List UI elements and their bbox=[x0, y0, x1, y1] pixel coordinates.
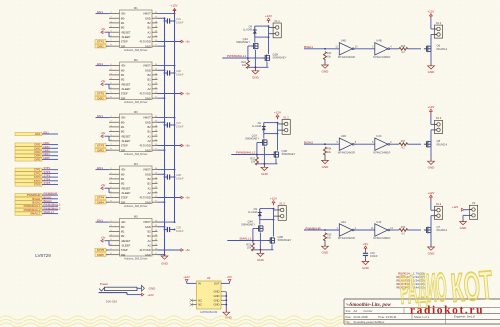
svg-text:Arduino_SM_Driver: Arduino_SM_Driver bbox=[124, 204, 148, 208]
ground (BIGH1 pulldown) bbox=[322, 59, 330, 73]
port STP5 (module M5) bbox=[95, 248, 109, 252]
svg-text:STP1: STP1 bbox=[44, 166, 51, 170]
svg-text:X2.2: X2.2 bbox=[436, 202, 442, 206]
ground (Q7 source) bbox=[428, 233, 436, 256]
power +12V (power jack) bbox=[127, 293, 154, 297]
port PWM8KHR bbox=[15, 192, 58, 198]
note IRLR part list bbox=[396, 272, 425, 290]
port STP3 bbox=[15, 174, 58, 180]
svg-text:M5: M5 bbox=[134, 214, 138, 218]
svg-text:+12V: +12V bbox=[147, 293, 154, 297]
svg-text:Number:: Number: bbox=[364, 310, 374, 313]
title block bbox=[344, 299, 500, 324]
svg-text:STEP: STEP bbox=[121, 196, 128, 200]
svg-text:Time: 14:36:31: Time: 14:36:31 bbox=[378, 315, 397, 319]
connector X1.2 bbox=[278, 115, 291, 134]
svg-text:VMOT: VMOT bbox=[143, 168, 151, 172]
svg-text:LV8729: LV8729 bbox=[35, 253, 51, 258]
capacitor C28 100nF bbox=[164, 173, 184, 180]
net label EN1 (module M4) bbox=[96, 166, 110, 170]
svg-text:PWMSMALL2: PWMSMALL2 bbox=[44, 206, 61, 210]
svg-text:GND: GND bbox=[145, 225, 151, 229]
svg-text:B1: B1 bbox=[148, 234, 152, 238]
svg-text:+5v: +5v bbox=[185, 196, 190, 200]
svg-text:+12V: +12V bbox=[274, 111, 281, 115]
connector X2.4 bbox=[431, 18, 443, 46]
power +12V (X1.3 block) bbox=[270, 197, 277, 206]
svg-text:X1.1: X1.1 bbox=[274, 19, 280, 23]
svg-text:Arduino_SM_Driver: Arduino_SM_Driver bbox=[124, 257, 148, 261]
svg-text:LL4148: LL4148 bbox=[252, 124, 261, 128]
svg-text:STP5: STP5 bbox=[44, 181, 51, 185]
port DIR5 bbox=[15, 156, 58, 162]
svg-text:DIR: DIR bbox=[121, 200, 126, 204]
svg-text:10k: 10k bbox=[242, 63, 247, 67]
resistor R24 10k (pulldown) bbox=[324, 147, 333, 155]
port DIR2 (module M2) bbox=[95, 96, 109, 100]
resistor R22 10k bbox=[250, 156, 258, 165]
net label PWMSMALL2 bbox=[231, 143, 271, 158]
power +5v (module M3) bbox=[101, 131, 109, 141]
wire GND pins M3 to GND rail bbox=[158, 121, 166, 151]
svg-text:+5V: +5V bbox=[227, 275, 232, 279]
power +12V (X1.2 block) bbox=[274, 111, 281, 120]
port EN1 bbox=[15, 131, 58, 137]
svg-text:-FLT/VDD: -FLT/VDD bbox=[139, 196, 151, 200]
transistor Q6 IRLR014 bbox=[424, 44, 448, 53]
svg-text:DIR4: DIR4 bbox=[34, 154, 41, 158]
wire bbox=[354, 229, 375, 231]
svg-text:Smoothie-power.SchDoc: Smoothie-power.SchDoc bbox=[354, 320, 385, 324]
svg-text:-FLT/VDD: -FLT/VDD bbox=[139, 144, 151, 148]
svg-text:+5v: +5v bbox=[101, 27, 106, 31]
resistor R30 4.7 (gate) bbox=[390, 226, 421, 235]
port STP1 (module M1) bbox=[95, 40, 109, 44]
power +12V (Q8 drain) bbox=[427, 105, 434, 114]
svg-text:GND: GND bbox=[322, 165, 330, 169]
capacitor C29 100nF bbox=[164, 226, 184, 233]
svg-text:M74HC04M1R: M74HC04M1R bbox=[338, 236, 355, 240]
port STP5 bbox=[15, 181, 58, 187]
power +12V (connector X3) bbox=[452, 205, 470, 211]
svg-text:+5v: +5v bbox=[101, 79, 106, 83]
svg-text:SI9945AEY: SI9945AEY bbox=[245, 136, 259, 140]
svg-text:-RESET: -RESET bbox=[121, 30, 131, 34]
svg-text:GND: GND bbox=[252, 76, 260, 80]
svg-text:Q8: Q8 bbox=[437, 139, 441, 143]
port DIR3 (module M3) bbox=[95, 148, 109, 152]
svg-text:B2: B2 bbox=[148, 21, 152, 25]
port STP1 bbox=[15, 166, 58, 172]
svg-text:100nF: 100nF bbox=[176, 20, 184, 24]
resistor R13 10k (pulldown) bbox=[324, 52, 333, 60]
module M1 Arduino_SM_Driver bbox=[109, 6, 158, 52]
svg-text:A1: A1 bbox=[148, 82, 152, 86]
port STP2 (module M2) bbox=[95, 92, 109, 96]
wire VMOT M2 to +12V rail bbox=[158, 65, 176, 67]
wire GND pins M2 to GND rail bbox=[158, 69, 166, 99]
svg-text:GND: GND bbox=[145, 148, 151, 152]
svg-text:M4: M4 bbox=[134, 162, 138, 166]
module M5 Arduino_SM_Driver bbox=[109, 214, 158, 260]
transistor Q2A SI9945AEY bbox=[236, 37, 258, 50]
text LV8729 bbox=[35, 253, 51, 258]
transistor Q7 IRLR014 bbox=[424, 225, 448, 234]
transistor Q4A SI9945AEY bbox=[241, 219, 263, 232]
svg-text:DIR3: DIR3 bbox=[44, 149, 51, 153]
svg-text:Arduino_SM_Driver: Arduino_SM_Driver bbox=[124, 152, 148, 156]
svg-text:BIGH1: BIGH1 bbox=[32, 197, 41, 201]
svg-text:PWMSMALL2: PWMSMALL2 bbox=[236, 151, 256, 155]
ground (X1.3 block) bbox=[253, 233, 274, 263]
capacitor C10 100nF bbox=[363, 251, 378, 259]
svg-text:LM78L05ACM: LM78L05ACM bbox=[200, 310, 218, 314]
svg-text:M2: M2 bbox=[121, 78, 125, 82]
svg-text:STP2: STP2 bbox=[44, 170, 51, 174]
svg-text:GND: GND bbox=[460, 226, 468, 230]
svg-text:B2: B2 bbox=[148, 73, 152, 77]
svg-text:-EN: -EN bbox=[121, 168, 126, 172]
port BIGH2 bbox=[15, 199, 58, 205]
svg-text:DIR5: DIR5 bbox=[34, 157, 41, 161]
svg-text:U4E: U4E bbox=[341, 39, 346, 43]
port STP3 (module M3) bbox=[95, 144, 109, 148]
wire bbox=[354, 143, 375, 145]
svg-text:SI9945AEY: SI9945AEY bbox=[282, 152, 296, 156]
svg-text:Arduino_SM_Driver: Arduino_SM_Driver bbox=[124, 100, 148, 104]
svg-text:M1: M1 bbox=[121, 230, 125, 234]
module M4 Arduino_SM_Driver bbox=[109, 162, 158, 208]
connector X1.3 bbox=[274, 201, 287, 220]
power +5v at -FLT/VDD M2 bbox=[158, 92, 191, 96]
svg-text:DIR: DIR bbox=[121, 96, 126, 100]
svg-text:GND: GND bbox=[145, 120, 151, 124]
svg-text:STP4: STP4 bbox=[97, 196, 105, 200]
net label BIGH1 bbox=[304, 45, 339, 50]
svg-text:-SLEEP: -SLEEP bbox=[121, 243, 131, 247]
svg-text:Smoothie-Lite, pow: Smoothie-Lite, pow bbox=[350, 302, 392, 308]
svg-text:X1.3: X1.3 bbox=[279, 201, 285, 205]
svg-text:DIR2: DIR2 bbox=[97, 96, 104, 100]
svg-text:IN: IN bbox=[198, 282, 201, 286]
ground (U3 GND pins) bbox=[223, 292, 233, 320]
connector X1.1 bbox=[269, 19, 282, 38]
svg-text:GND: GND bbox=[261, 172, 269, 176]
port DIR2 bbox=[15, 145, 58, 151]
svg-text:SI9945AEY: SI9945AEY bbox=[236, 40, 250, 44]
svg-text:Size:: Size: bbox=[346, 310, 352, 313]
net label EN1 (module M5) bbox=[96, 218, 110, 222]
svg-text:LL4148: LL4148 bbox=[243, 28, 252, 32]
svg-text:+5v: +5v bbox=[101, 183, 106, 187]
svg-text:+12V: +12V bbox=[265, 14, 272, 18]
ground GND rail bottom bbox=[161, 253, 169, 266]
svg-text:GND: GND bbox=[145, 96, 151, 100]
svg-text:+12V: +12V bbox=[270, 197, 277, 201]
svg-text:M74HC04M1R: M74HC04M1R bbox=[373, 55, 390, 59]
svg-text:EN1: EN1 bbox=[97, 114, 103, 118]
svg-text:M0: M0 bbox=[121, 16, 125, 20]
wire GND pins M4 to GND rail bbox=[158, 173, 166, 203]
svg-text:M0: M0 bbox=[121, 172, 125, 176]
svg-text:GND: GND bbox=[362, 266, 370, 270]
svg-text:КОТ: КОТ bbox=[449, 262, 495, 311]
connector X3 bbox=[469, 201, 477, 219]
svg-text:EN1: EN1 bbox=[97, 10, 103, 14]
svg-text:-EN: -EN bbox=[121, 12, 126, 16]
svg-text:STEP: STEP bbox=[121, 40, 128, 44]
svg-text:EN1: EN1 bbox=[97, 218, 103, 222]
port STP2 bbox=[15, 170, 58, 176]
net label PWMSMALL1 bbox=[222, 46, 262, 61]
watermark RADIOKOT logo bbox=[398, 262, 494, 313]
svg-text:M0: M0 bbox=[121, 225, 125, 229]
ground (PWM8KHR pulldown) bbox=[322, 240, 330, 254]
diode D3 LL4148 bbox=[248, 207, 274, 220]
svg-text:STEP: STEP bbox=[121, 248, 128, 252]
svg-text:-RESET: -RESET bbox=[121, 239, 131, 243]
svg-text:DIR5: DIR5 bbox=[44, 156, 51, 160]
power +12V rail top bbox=[170, 3, 177, 13]
svg-text:-FLT/VDD: -FLT/VDD bbox=[139, 40, 151, 44]
svg-text:Q6: Q6 bbox=[437, 44, 441, 48]
power +5v (module M2) bbox=[101, 79, 109, 89]
svg-text:B2: B2 bbox=[148, 125, 152, 129]
svg-text:DIR: DIR bbox=[121, 253, 126, 257]
port DIR5 (module M5) bbox=[95, 253, 109, 257]
svg-text:Arduino_SM_Driver: Arduino_SM_Driver bbox=[124, 48, 148, 52]
svg-text:M0: M0 bbox=[121, 120, 125, 124]
svg-text:A4: A4 bbox=[354, 309, 358, 313]
svg-text:BIGH2: BIGH2 bbox=[32, 201, 41, 205]
svg-text:STP4: STP4 bbox=[34, 179, 41, 183]
svg-text:STP3: STP3 bbox=[34, 175, 41, 179]
svg-text:A1: A1 bbox=[148, 186, 152, 190]
connector X2.2 bbox=[431, 200, 443, 228]
wire VMOT M5 to +12V rail bbox=[158, 221, 176, 223]
power +12V (U3 input) bbox=[183, 275, 196, 283]
svg-text:R27: R27 bbox=[401, 140, 406, 143]
inverter U4D M74HC04M1R bbox=[336, 134, 356, 154]
svg-text:VMOT: VMOT bbox=[143, 64, 151, 68]
module M3 Arduino_SM_Driver bbox=[109, 110, 158, 156]
svg-text:GND: GND bbox=[214, 303, 220, 307]
wire VMOT M1 to +12V rail bbox=[158, 13, 176, 15]
svg-text:-FLT/VDD: -FLT/VDD bbox=[139, 248, 151, 252]
svg-text:X1.2: X1.2 bbox=[283, 115, 289, 119]
svg-text:GND: GND bbox=[145, 172, 151, 176]
svg-text:LL4148: LL4148 bbox=[248, 210, 257, 214]
wire +12V rail bbox=[174, 10, 176, 223]
svg-text:+12V: +12V bbox=[170, 3, 177, 7]
svg-text:+12V: +12V bbox=[452, 205, 459, 209]
svg-text:B1: B1 bbox=[148, 26, 152, 30]
svg-text:DIR3: DIR3 bbox=[34, 150, 41, 154]
svg-text:GND: GND bbox=[145, 16, 151, 20]
net label PWM8KHR bbox=[304, 226, 339, 231]
svg-text:STP2: STP2 bbox=[97, 92, 105, 96]
watermark radiokot.ru bbox=[410, 305, 484, 317]
svg-text:M74HC04M1R: M74HC04M1R bbox=[373, 150, 390, 154]
svg-text:NC: NC bbox=[198, 303, 202, 307]
net label BIGH2 bbox=[304, 141, 339, 146]
ground (Q6 source) bbox=[428, 51, 436, 74]
svg-text:U4D: U4D bbox=[341, 134, 346, 138]
svg-text:GND: GND bbox=[428, 166, 436, 170]
svg-text:-SLEEP: -SLEEP bbox=[121, 87, 131, 91]
svg-text:EN1: EN1 bbox=[44, 131, 50, 135]
svg-text:+5v: +5v bbox=[101, 236, 106, 240]
svg-text:DIR1: DIR1 bbox=[44, 141, 51, 145]
transistor Q8 IRLR014 bbox=[424, 139, 448, 148]
svg-text:100nF: 100nF bbox=[370, 254, 378, 258]
svg-text:100nF: 100nF bbox=[176, 124, 184, 128]
svg-text:GND: GND bbox=[322, 251, 330, 255]
svg-text:GND: GND bbox=[149, 287, 157, 291]
svg-text:STP3: STP3 bbox=[97, 144, 105, 148]
svg-text:DIR2: DIR2 bbox=[44, 145, 51, 149]
svg-text:M74HC04M1R: M74HC04M1R bbox=[373, 236, 390, 240]
svg-text:-SLEEP: -SLEEP bbox=[121, 191, 131, 195]
svg-text:EN1: EN1 bbox=[35, 132, 41, 136]
svg-text:SMALL1: SMALL1 bbox=[30, 212, 41, 216]
svg-text:M2: M2 bbox=[134, 58, 138, 62]
svg-text:GND: GND bbox=[145, 68, 151, 72]
power +5v (module M1) bbox=[101, 27, 109, 37]
diode D4 LL4148 bbox=[243, 25, 269, 38]
svg-text:M1: M1 bbox=[121, 177, 125, 181]
inverter U4E M74HC04M1R bbox=[335, 39, 358, 59]
ground (X1.1 block) bbox=[248, 50, 269, 80]
svg-text:U3: U3 bbox=[207, 276, 211, 280]
power +5V (U3 output) bbox=[221, 275, 232, 283]
svg-text:GND: GND bbox=[145, 200, 151, 204]
svg-text:SI9945AEY: SI9945AEY bbox=[241, 222, 255, 226]
power +5v at -FLT/VDD M1 bbox=[158, 40, 191, 44]
svg-text:GND: GND bbox=[214, 294, 220, 298]
svg-text:M2: M2 bbox=[121, 26, 125, 30]
svg-text:A1: A1 bbox=[148, 30, 152, 34]
svg-text:M1: M1 bbox=[134, 6, 138, 10]
svg-text:GND: GND bbox=[428, 70, 436, 74]
svg-text:X2.3: X2.3 bbox=[436, 116, 442, 120]
svg-text:+12V: +12V bbox=[427, 191, 434, 195]
svg-text:GND: GND bbox=[428, 251, 436, 255]
svg-text:DIR: DIR bbox=[121, 44, 126, 48]
power +5v (module M4) bbox=[101, 183, 109, 193]
svg-text:IRLR014: IRLR014 bbox=[437, 142, 448, 146]
svg-text:+12V: +12V bbox=[427, 10, 434, 14]
svg-text:+5V: +5V bbox=[363, 242, 368, 246]
ground (connector X3) bbox=[460, 215, 470, 230]
port STP4 bbox=[15, 177, 58, 183]
wire VMOT M4 to +12V rail bbox=[158, 169, 176, 171]
svg-text:GND: GND bbox=[214, 298, 220, 302]
svg-text:Power: Power bbox=[100, 282, 108, 286]
port DIR3 bbox=[15, 149, 58, 155]
transistor Q1A SI9945AEY bbox=[245, 133, 267, 146]
svg-text:+5v: +5v bbox=[185, 144, 190, 148]
transistor Q4B SI9945AEY bbox=[268, 220, 292, 244]
svg-text:SI9945AEY: SI9945AEY bbox=[273, 56, 287, 60]
svg-text:DIR1: DIR1 bbox=[97, 44, 104, 48]
svg-text:M2: M2 bbox=[121, 182, 125, 186]
svg-text:DJK-02A: DJK-02A bbox=[106, 300, 117, 304]
port STP4 (module M4) bbox=[95, 196, 109, 200]
svg-text:STP5: STP5 bbox=[97, 248, 105, 252]
svg-text:-EN: -EN bbox=[121, 220, 126, 224]
svg-text:10k: 10k bbox=[251, 159, 256, 163]
svg-text:DIR5: DIR5 bbox=[97, 253, 104, 257]
svg-text:GND: GND bbox=[145, 253, 151, 257]
svg-text:SMALL1: SMALL1 bbox=[44, 210, 55, 214]
svg-text:GND: GND bbox=[214, 290, 220, 294]
svg-text:BIGH2: BIGH2 bbox=[44, 199, 53, 203]
svg-text:PWM8KHR: PWM8KHR bbox=[44, 192, 58, 196]
title block text bbox=[346, 302, 476, 324]
svg-text:100nF: 100nF bbox=[176, 229, 184, 233]
svg-text:OUT: OUT bbox=[214, 282, 220, 286]
svg-text:STP3: STP3 bbox=[44, 174, 51, 178]
svg-text:A1: A1 bbox=[148, 239, 152, 243]
svg-text:X3: X3 bbox=[472, 201, 476, 205]
svg-text:M74HC04M1R: M74HC04M1R bbox=[338, 55, 355, 59]
port DIR1 (module M1) bbox=[95, 44, 109, 48]
svg-text:U4A: U4A bbox=[341, 220, 346, 224]
port DIR1 bbox=[15, 141, 58, 147]
svg-text:PWMSMALL1: PWMSMALL1 bbox=[44, 203, 61, 207]
power +12V (Q7 drain) bbox=[427, 191, 434, 200]
svg-text:A2: A2 bbox=[148, 191, 152, 195]
svg-text:PWMSMALL1: PWMSMALL1 bbox=[227, 54, 247, 58]
transistor Q1B SI9945AEY bbox=[272, 134, 296, 158]
svg-text:M1: M1 bbox=[121, 125, 125, 129]
svg-text:-RESET: -RESET bbox=[121, 186, 131, 190]
watermark wave texture bbox=[0, 316, 348, 327]
resistor R15 10k (pulldown) bbox=[324, 233, 333, 241]
svg-text:+12V: +12V bbox=[427, 105, 434, 109]
port DIR4 (module M4) bbox=[95, 200, 109, 204]
ground (BIGH2 pulldown) bbox=[322, 154, 330, 168]
svg-text:STP5: STP5 bbox=[34, 183, 41, 187]
svg-text:VMOT: VMOT bbox=[143, 220, 151, 224]
svg-text:-EN: -EN bbox=[121, 116, 126, 120]
svg-text:U4B: U4B bbox=[376, 39, 381, 43]
svg-text:PWM8KHR: PWM8KHR bbox=[27, 193, 41, 197]
svg-text:R26: R26 bbox=[401, 45, 406, 48]
svg-text:GND: GND bbox=[257, 258, 265, 262]
svg-text:A2: A2 bbox=[148, 35, 152, 39]
capacitor C21 100nF bbox=[164, 17, 184, 24]
connector X2.3 bbox=[431, 114, 443, 142]
svg-text:M1: M1 bbox=[121, 21, 125, 25]
svg-text:R30: R30 bbox=[401, 226, 406, 229]
svg-text:BIGH1: BIGH1 bbox=[44, 195, 53, 199]
svg-text:-SLEEP: -SLEEP bbox=[121, 35, 131, 39]
svg-text:-RESET: -RESET bbox=[121, 82, 131, 86]
wire GND pins M1 to GND rail bbox=[158, 17, 166, 47]
module M2 Arduino_SM_Driver bbox=[109, 58, 158, 104]
wire VMOT M3 to +12V rail bbox=[158, 117, 176, 119]
resistor R27 4.7 (gate) bbox=[390, 140, 421, 149]
transistor Q2B SI9945AEY bbox=[263, 37, 287, 61]
inverter U4C M74HC04M1R bbox=[372, 134, 392, 154]
svg-text:DIR1: DIR1 bbox=[34, 143, 41, 147]
resistor R21 10k bbox=[241, 60, 249, 69]
svg-text:STEP: STEP bbox=[121, 92, 128, 96]
svg-text:B2: B2 bbox=[148, 230, 152, 234]
svg-text:B1: B1 bbox=[148, 130, 152, 134]
